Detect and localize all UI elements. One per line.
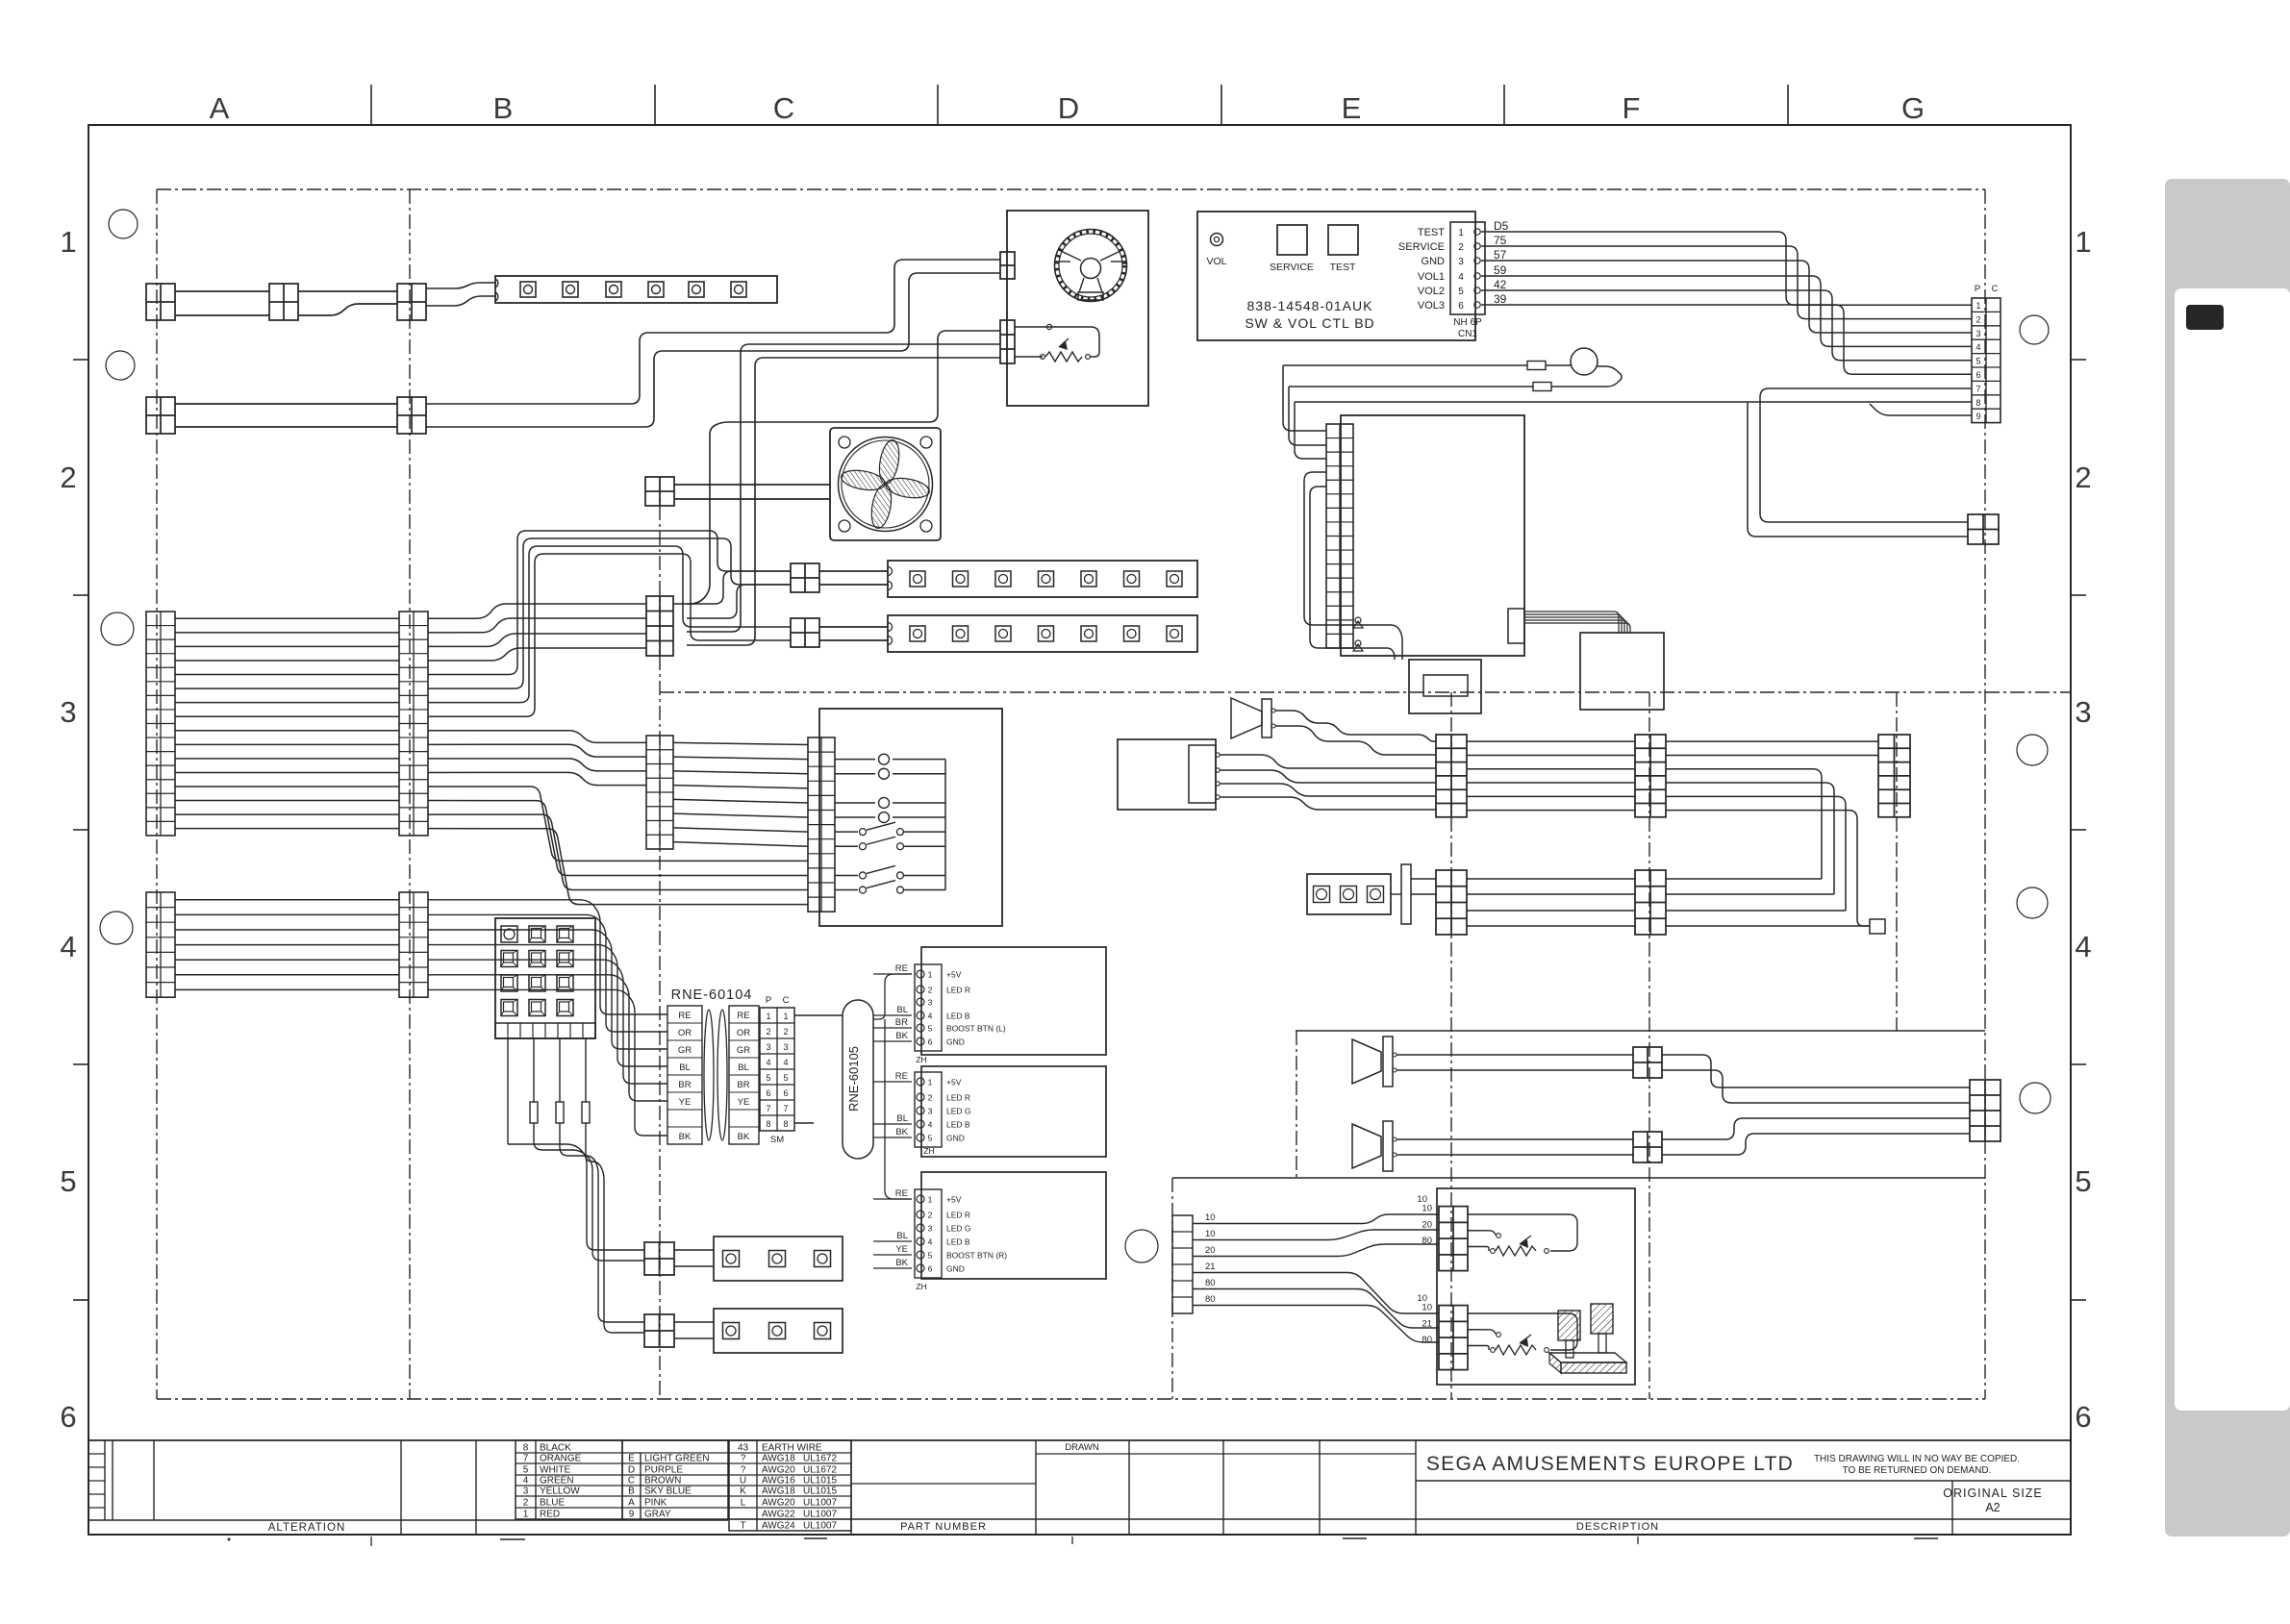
svg-text:BOOST BTN (L): BOOST BTN (L)	[946, 1024, 1006, 1034]
svg-text:7: 7	[766, 1104, 770, 1113]
svg-text:4: 4	[1458, 272, 1464, 283]
svg-text:1: 1	[60, 225, 76, 259]
svg-text:4: 4	[928, 1120, 933, 1130]
svg-text:6: 6	[928, 1037, 933, 1047]
svg-text:SERVICE: SERVICE	[1398, 241, 1445, 253]
svg-text:5: 5	[523, 1465, 529, 1476]
svg-text:1: 1	[928, 1195, 933, 1205]
svg-text:ZH: ZH	[923, 1146, 934, 1156]
svg-text:1: 1	[928, 1078, 933, 1087]
svg-text:AWG22: AWG22	[762, 1510, 795, 1520]
svg-text:VOL: VOL	[1206, 256, 1226, 267]
svg-text:GR: GR	[678, 1045, 692, 1056]
svg-text:A: A	[628, 1498, 635, 1509]
svg-text:80: 80	[1205, 1294, 1216, 1305]
svg-text:LED R: LED R	[946, 1093, 970, 1103]
svg-text:21: 21	[1422, 1318, 1432, 1329]
svg-text:BL: BL	[896, 1005, 908, 1015]
svg-text:L: L	[741, 1498, 746, 1509]
svg-text:9: 9	[1975, 412, 1980, 421]
svg-text:6: 6	[1975, 370, 1980, 380]
svg-text:LED G: LED G	[946, 1224, 971, 1234]
svg-text:DRAWN: DRAWN	[1065, 1442, 1099, 1453]
svg-text:GND: GND	[1422, 256, 1446, 267]
svg-text:LED G: LED G	[946, 1107, 971, 1116]
svg-text:6: 6	[2075, 1400, 2091, 1434]
svg-text:2: 2	[928, 1093, 933, 1103]
svg-text:GND: GND	[946, 1264, 965, 1274]
svg-text:BK: BK	[679, 1132, 692, 1142]
svg-text:LED R: LED R	[946, 986, 970, 995]
svg-text:E: E	[1342, 91, 1362, 125]
svg-text:LIGHT GREEN: LIGHT GREEN	[644, 1454, 710, 1464]
svg-text:UL1015: UL1015	[803, 1487, 837, 1497]
svg-text:P: P	[766, 995, 771, 1006]
svg-text:LED B: LED B	[946, 1237, 970, 1247]
svg-text:20: 20	[1422, 1219, 1432, 1230]
svg-text:?: ?	[741, 1465, 746, 1476]
svg-text:UL1672: UL1672	[803, 1465, 837, 1476]
svg-text:F: F	[1623, 91, 1641, 125]
svg-text:RE: RE	[895, 963, 908, 974]
svg-text:D5: D5	[1494, 219, 1509, 233]
svg-text:6: 6	[1458, 301, 1464, 312]
svg-text:BR: BR	[895, 1017, 908, 1028]
svg-text:1: 1	[928, 970, 933, 980]
svg-text:BL: BL	[738, 1062, 749, 1073]
svg-text:2: 2	[60, 461, 76, 494]
svg-text:4: 4	[928, 1237, 933, 1247]
svg-text:2: 2	[1458, 242, 1464, 253]
svg-text:E: E	[628, 1454, 635, 1464]
svg-text:7: 7	[783, 1104, 788, 1113]
svg-text:3: 3	[928, 1107, 933, 1116]
svg-text:3: 3	[928, 1224, 933, 1234]
svg-text:75: 75	[1494, 234, 1507, 247]
svg-text:AWG18: AWG18	[762, 1487, 795, 1497]
svg-text:BR: BR	[737, 1080, 749, 1090]
svg-text:5: 5	[60, 1164, 76, 1198]
svg-text:YELLOW: YELLOW	[540, 1487, 580, 1497]
svg-text:T: T	[740, 1521, 745, 1532]
svg-text:2: 2	[2075, 461, 2091, 494]
svg-text:UL1007: UL1007	[803, 1521, 837, 1532]
svg-text:RNE-60105: RNE-60105	[846, 1046, 861, 1112]
svg-text:5: 5	[1458, 287, 1464, 297]
svg-text:3: 3	[523, 1487, 529, 1497]
svg-text:20: 20	[1205, 1245, 1216, 1256]
svg-text:21: 21	[1205, 1262, 1216, 1272]
svg-text:YE: YE	[895, 1244, 908, 1255]
svg-text:+5V: +5V	[946, 1195, 962, 1205]
svg-text:BK: BK	[895, 1127, 908, 1137]
svg-text:1: 1	[783, 1012, 788, 1021]
svg-text:BK: BK	[895, 1258, 908, 1268]
svg-text:BLUE: BLUE	[540, 1498, 565, 1509]
svg-text:10: 10	[1422, 1303, 1432, 1313]
svg-text:6: 6	[60, 1400, 76, 1434]
svg-text:TEST: TEST	[1330, 262, 1356, 273]
svg-text:CN1: CN1	[1458, 329, 1477, 339]
svg-text:AWG18: AWG18	[762, 1454, 795, 1464]
svg-text:3: 3	[766, 1042, 770, 1052]
svg-text:8: 8	[1975, 398, 1980, 408]
svg-text:5: 5	[2075, 1164, 2091, 1198]
svg-text:LED B: LED B	[946, 1120, 970, 1130]
svg-text:YE: YE	[679, 1097, 692, 1108]
svg-text:1: 1	[1458, 228, 1464, 238]
svg-text:59: 59	[1494, 263, 1507, 277]
svg-text:VOL2: VOL2	[1418, 286, 1445, 297]
svg-text:SKY BLUE: SKY BLUE	[644, 1487, 692, 1497]
svg-text:UL1015: UL1015	[803, 1476, 837, 1487]
svg-text:BLACK: BLACK	[540, 1443, 571, 1454]
svg-text:4: 4	[1975, 342, 1980, 352]
svg-text:C: C	[628, 1476, 635, 1487]
svg-text:BL: BL	[679, 1062, 691, 1073]
svg-text:1: 1	[523, 1510, 529, 1520]
svg-text:GRAY: GRAY	[644, 1510, 671, 1520]
svg-text:57: 57	[1494, 248, 1507, 262]
svg-text:?: ?	[741, 1454, 746, 1464]
svg-text:2: 2	[783, 1027, 788, 1037]
svg-text:K: K	[740, 1487, 746, 1497]
svg-text:TO BE RETURNED ON DEMAND.: TO BE RETURNED ON DEMAND.	[1843, 1465, 1992, 1476]
svg-text:D: D	[628, 1465, 635, 1476]
svg-text:THIS DRAWING WILL IN NO WAY BE: THIS DRAWING WILL IN NO WAY BE COPIED.	[1814, 1454, 2020, 1464]
svg-text:UL1672: UL1672	[803, 1454, 837, 1464]
svg-text:2: 2	[928, 986, 933, 995]
svg-text:OR: OR	[678, 1028, 692, 1038]
svg-text:8: 8	[783, 1119, 788, 1129]
svg-text:43: 43	[738, 1443, 749, 1454]
svg-text:RED: RED	[540, 1510, 560, 1520]
svg-text:BR: BR	[678, 1080, 691, 1090]
svg-text:ORIGINAL SIZE: ORIGINAL SIZE	[1943, 1487, 2043, 1500]
svg-text:BL: BL	[896, 1113, 908, 1124]
svg-text:2: 2	[1975, 314, 1980, 324]
svg-text:LED R: LED R	[946, 1211, 970, 1220]
svg-text:3: 3	[2075, 695, 2091, 729]
svg-text:BL: BL	[896, 1231, 908, 1241]
svg-text:RE: RE	[678, 1011, 691, 1021]
svg-text:ZH: ZH	[916, 1282, 926, 1291]
svg-text:42: 42	[1494, 278, 1507, 291]
svg-text:+5V: +5V	[946, 1078, 962, 1087]
svg-text:2: 2	[928, 1211, 933, 1220]
svg-text:2: 2	[766, 1027, 770, 1037]
svg-text:UL1007: UL1007	[803, 1498, 837, 1509]
svg-text:BK: BK	[738, 1132, 750, 1142]
svg-text:6: 6	[928, 1264, 933, 1274]
svg-text:80: 80	[1205, 1278, 1216, 1288]
svg-text:1: 1	[766, 1012, 770, 1021]
svg-text:OR: OR	[737, 1028, 750, 1038]
svg-text:B: B	[628, 1487, 635, 1497]
svg-text:4: 4	[523, 1476, 529, 1487]
svg-text:SEGA AMUSEMENTS EUROPE LTD: SEGA AMUSEMENTS EUROPE LTD	[1426, 1453, 1794, 1475]
svg-text:ALTERATION: ALTERATION	[268, 1522, 346, 1534]
svg-text:ORANGE: ORANGE	[540, 1454, 582, 1464]
svg-text:D: D	[1058, 91, 1079, 125]
svg-text:39: 39	[1494, 292, 1507, 306]
svg-text:5: 5	[928, 1251, 933, 1261]
svg-text:8: 8	[766, 1119, 770, 1129]
svg-text:8: 8	[523, 1443, 529, 1454]
svg-text:VOL1: VOL1	[1418, 271, 1445, 283]
svg-text:C: C	[783, 995, 790, 1006]
svg-text:WHITE: WHITE	[540, 1465, 571, 1476]
svg-text:1: 1	[2075, 225, 2091, 259]
svg-text:10: 10	[1205, 1229, 1216, 1239]
svg-text:GR: GR	[737, 1045, 750, 1056]
svg-text:4: 4	[766, 1058, 770, 1067]
svg-text:EARTH WIRE: EARTH WIRE	[762, 1443, 822, 1454]
svg-text:RE: RE	[737, 1011, 749, 1021]
svg-text:A2: A2	[1985, 1501, 2000, 1514]
svg-text:UL1007: UL1007	[803, 1510, 837, 1520]
svg-text:AWG24: AWG24	[762, 1521, 795, 1532]
svg-text:3: 3	[1975, 329, 1980, 338]
svg-text:U: U	[740, 1476, 746, 1487]
svg-text:2: 2	[523, 1498, 529, 1509]
svg-text:RE: RE	[895, 1071, 908, 1082]
svg-text:80: 80	[1422, 1236, 1432, 1246]
svg-text:SM: SM	[770, 1135, 784, 1145]
svg-text:AWG20: AWG20	[762, 1465, 795, 1476]
svg-text:GND: GND	[946, 1134, 965, 1143]
svg-text:C: C	[1992, 284, 1999, 294]
svg-text:DESCRIPTION: DESCRIPTION	[1576, 1521, 1659, 1533]
svg-text:VOL3: VOL3	[1418, 300, 1445, 312]
svg-text:3: 3	[783, 1042, 788, 1052]
svg-text:4: 4	[60, 930, 76, 963]
svg-text:3: 3	[1458, 257, 1464, 267]
svg-text:A: A	[210, 91, 230, 125]
svg-text:7: 7	[1975, 384, 1980, 393]
svg-text:838-14548-01AUK: 838-14548-01AUK	[1247, 298, 1373, 313]
svg-text:80: 80	[1422, 1335, 1432, 1345]
svg-text:YE: YE	[738, 1097, 750, 1108]
svg-text:SW & VOL CTL BD: SW & VOL CTL BD	[1245, 315, 1374, 331]
svg-text:LED B: LED B	[946, 1012, 970, 1021]
svg-text:C: C	[773, 91, 794, 125]
svg-text:6: 6	[766, 1088, 770, 1098]
svg-text:3: 3	[928, 998, 933, 1008]
svg-text:BOOST BTN (R): BOOST BTN (R)	[946, 1251, 1007, 1261]
svg-text:TEST: TEST	[1418, 227, 1445, 238]
svg-text:P: P	[1975, 284, 1980, 294]
svg-text:4: 4	[2075, 930, 2091, 963]
svg-text:1: 1	[1975, 301, 1980, 311]
svg-text:PINK: PINK	[644, 1498, 667, 1509]
svg-text:5: 5	[783, 1073, 788, 1083]
svg-text:NH 6P: NH 6P	[1453, 317, 1482, 328]
svg-text:AWG16: AWG16	[762, 1476, 795, 1487]
svg-text:5: 5	[766, 1073, 770, 1083]
svg-text:G: G	[1901, 91, 1925, 125]
svg-text:9: 9	[629, 1510, 635, 1520]
svg-text:SERVICE: SERVICE	[1270, 262, 1314, 273]
svg-text:AWG20: AWG20	[762, 1498, 795, 1509]
svg-text:10: 10	[1417, 1194, 1427, 1205]
svg-text:4: 4	[783, 1058, 788, 1067]
svg-text:5: 5	[928, 1024, 933, 1034]
svg-text:GND: GND	[946, 1037, 965, 1047]
svg-text:PURPLE: PURPLE	[644, 1465, 683, 1476]
svg-text:GREEN: GREEN	[540, 1476, 574, 1487]
svg-text:ZH: ZH	[916, 1055, 926, 1064]
svg-text:5: 5	[928, 1134, 933, 1143]
svg-text:+5V: +5V	[946, 970, 962, 980]
svg-text:10: 10	[1417, 1293, 1427, 1304]
svg-text:BK: BK	[895, 1031, 908, 1041]
svg-text:RNE-60104: RNE-60104	[671, 987, 753, 1003]
svg-text:3: 3	[60, 695, 76, 729]
svg-text:PART NUMBER: PART NUMBER	[900, 1521, 987, 1533]
svg-text:7: 7	[523, 1454, 529, 1464]
svg-text:6: 6	[783, 1088, 788, 1098]
svg-text:RE: RE	[895, 1188, 908, 1199]
svg-text:10: 10	[1205, 1212, 1216, 1223]
svg-text:5: 5	[1975, 357, 1980, 366]
svg-text:BROWN: BROWN	[644, 1476, 681, 1487]
svg-text:10: 10	[1422, 1204, 1432, 1214]
svg-text:B: B	[493, 91, 514, 125]
svg-text:4: 4	[928, 1012, 933, 1021]
